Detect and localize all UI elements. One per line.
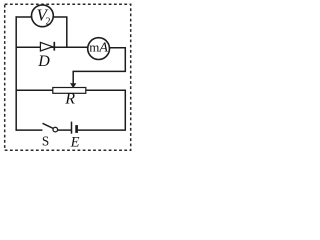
svg-text:mA: mA xyxy=(89,39,108,55)
svg-text:E: E xyxy=(70,135,80,151)
svg-text:S: S xyxy=(42,134,49,149)
svg-text:D: D xyxy=(37,53,50,70)
svg-text:R: R xyxy=(64,91,75,108)
svg-text:2: 2 xyxy=(46,17,51,28)
